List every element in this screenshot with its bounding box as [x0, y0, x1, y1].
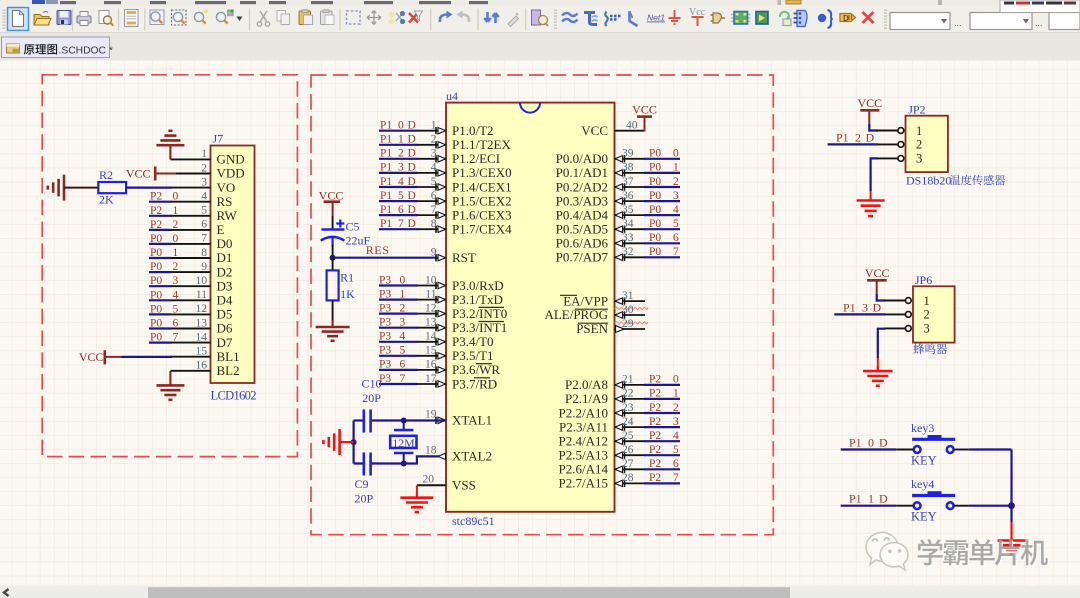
U4 pin 3 (P1.2/ECI) with net label P1_2_D: [379, 148, 500, 167]
J7 pin 1 (GND): [171, 148, 245, 166]
junction node RES: [330, 255, 336, 261]
svg-text:23: 23: [622, 402, 634, 414]
U4 pin 32 (P0.7/AD7) with net label P0_7: [556, 246, 680, 265]
svg-text:VCC: VCC: [857, 96, 882, 110]
svg-text:P3.0/RxD: P3.0/RxD: [452, 278, 504, 293]
power port VCC (JP6): [865, 266, 890, 294]
svg-text:36: 36: [622, 190, 634, 202]
svg-text:...: ...: [954, 18, 962, 28]
wire / net label P0_4 (J7 pin 11): [149, 289, 179, 301]
svg-text:11: 11: [425, 288, 436, 300]
U4 pin 11 (P3.1/TxD) with net label P3_1: [379, 288, 503, 307]
dashed region box: LCD1602 section: [42, 75, 297, 457]
value 20P (C9): [355, 492, 374, 506]
svg-text:P3.5/T1: P3.5/T1: [452, 348, 494, 363]
svg-text:1: 1: [924, 294, 930, 308]
power port VCC (J7 pin 2): [126, 166, 176, 180]
svg-text:D2: D2: [217, 264, 233, 279]
svg-text:u4: u4: [446, 89, 458, 103]
wire / net label P0_1 (J7 pin 8): [149, 247, 179, 259]
svg-text:5: 5: [201, 205, 207, 217]
U4 pin 31 EA/VPP: [560, 290, 645, 308]
svg-text:18: 18: [425, 445, 437, 457]
wire JP2 pin3 to ground: [871, 158, 878, 200]
svg-text:3: 3: [924, 322, 930, 336]
svg-text:1K: 1K: [340, 287, 355, 301]
svg-text:J7: J7: [213, 132, 224, 146]
U4 pin 2 (P1.1/T2EX) with net label P1_1_D: [379, 134, 511, 153]
wire / net label P0_7 (J7 pin 14): [149, 332, 179, 344]
svg-text:38: 38: [622, 162, 634, 174]
svg-text:P12D: P12D: [836, 130, 875, 144]
top-right open dropdown sliver: [1000, 0, 1080, 13]
ground (left of R2, rotated): [48, 175, 64, 201]
junction caps common: [351, 439, 357, 445]
JP6 pin 1: [884, 294, 930, 308]
svg-text:GND: GND: [217, 152, 245, 167]
designator R2: [99, 168, 113, 182]
watermark text 学霸单片机: [918, 539, 1049, 567]
svg-text:P11D: P11D: [849, 492, 888, 506]
label DS18b20 temperature sensor: [906, 174, 1005, 188]
U4 pin 17 (P3.7/RD) with net label P3_7: [379, 373, 497, 392]
J7 pin 6 (E): [171, 219, 225, 237]
svg-text:P3.7/RD: P3.7/RD: [452, 376, 497, 391]
svg-text:R2: R2: [99, 168, 113, 182]
ERC squiggle pin 29: [615, 322, 649, 324]
wire key3 to common: [954, 449, 1012, 451]
svg-text:P3.4/T0: P3.4/T0: [452, 334, 494, 349]
tab label 原理图.SCHDOC *: [24, 44, 113, 56]
svg-text:P1.0/T2: P1.0/T2: [452, 123, 494, 138]
bottom scrollbar: [0, 586, 1080, 598]
svg-text:P0.0/AD0: P0.0/AD0: [556, 151, 608, 166]
svg-text:P13D: P13D: [380, 162, 416, 174]
wire / net label P0_6 (J7 pin 13): [149, 318, 179, 330]
U4 pin 34 (P0.5/AD5) with net label P0_5: [556, 218, 680, 237]
U4 pin 15 (P3.5/T1) with net label P3_5: [379, 345, 494, 364]
svg-text:LCD1602: LCD1602: [211, 389, 257, 403]
value 2K: [99, 193, 114, 207]
J7 pin 13 (D6): [171, 317, 233, 335]
toolbar background: [0, 6, 1080, 33]
svg-text:KEY: KEY: [911, 510, 937, 524]
svg-text:14: 14: [196, 331, 208, 343]
svg-text:8: 8: [201, 247, 207, 259]
U4 pin 5 (P1.4/CEX1) with net label P1_4_D: [379, 176, 512, 195]
push button key3: [911, 421, 955, 468]
resistor R2: [98, 182, 126, 193]
svg-text:P12D: P12D: [380, 148, 416, 160]
svg-text:D1: D1: [217, 250, 233, 265]
tab bar: [0, 33, 1080, 60]
capacitor C5 (electrolytic): [321, 220, 345, 247]
wire ground to R2: [64, 187, 98, 189]
ground (keys): [998, 535, 1026, 555]
svg-text:25: 25: [622, 430, 634, 442]
net label P1_2_D / wire to JP2 pin 2: [828, 130, 878, 144]
value 20P (C10): [362, 391, 381, 405]
U4 pin 22 (P2.1/A9) with net label P2_1: [565, 388, 680, 407]
svg-text:20P: 20P: [362, 391, 381, 405]
svg-text:35: 35: [622, 204, 634, 216]
junction keys common: [1008, 502, 1015, 509]
svg-text:E: E: [217, 222, 225, 237]
wire / net label P2_0 (J7 pin 4): [149, 191, 179, 203]
U4 pin 13 (P3.3/INT1) with net label P3_3: [379, 317, 507, 336]
net label P1_0_D / wire to key3: [841, 436, 914, 450]
JP2 pin 3: [876, 152, 922, 166]
U4 pin 26 (P2.5/A13) with net label P2_5: [559, 444, 680, 463]
svg-text:1: 1: [201, 148, 207, 160]
svg-text:12: 12: [425, 302, 437, 314]
svg-text:15: 15: [425, 345, 437, 357]
svg-text:VCC: VCC: [319, 188, 344, 202]
svg-text:P1.4/CEX1: P1.4/CEX1: [452, 179, 512, 194]
svg-text:P0.3/AD3: P0.3/AD3: [556, 193, 608, 208]
JP6 pin 2: [884, 308, 930, 322]
designator u4: [446, 89, 458, 103]
label LCD1602: [211, 389, 257, 403]
U4 pin 20 VSS: [417, 474, 476, 493]
svg-text:10: 10: [196, 275, 208, 287]
toolbar icons: [4, 0, 1080, 31]
wire XTAL2 rail: [354, 456, 439, 463]
svg-text:5: 5: [431, 176, 437, 188]
J7 pin 7 (D0): [171, 233, 233, 251]
designator JP2: [908, 103, 925, 117]
svg-text:R1: R1: [340, 270, 354, 284]
svg-text:P1.1/T2EX: P1.1/T2EX: [452, 137, 511, 152]
U4 pin 1 (P1.0/T2) with net label P1_0_D: [379, 120, 494, 139]
svg-text:VO: VO: [217, 180, 236, 195]
wire VCC to C5: [332, 216, 334, 230]
value 22uF: [346, 233, 371, 247]
power port VCC (reset branch): [319, 188, 344, 216]
resistor R1: [327, 270, 339, 300]
net label P1_1_D / wire to key4: [841, 492, 914, 506]
svg-text:RST: RST: [452, 250, 476, 265]
wire key4 to common: [954, 505, 1012, 507]
svg-text:P1.3/CEX0: P1.3/CEX0: [452, 165, 512, 180]
designator C10: [362, 377, 382, 391]
wire keys common vertical: [1010, 450, 1012, 523]
J7 pin 15 (BL1): [171, 346, 240, 364]
svg-text:3: 3: [916, 152, 922, 166]
power port VCC (J7 pin 15): [79, 350, 122, 365]
svg-text:37: 37: [622, 176, 634, 188]
svg-text:KEY: KEY: [911, 454, 937, 468]
wire JP6 pin3 to ground: [878, 329, 886, 371]
U4 pin 7 (P1.6/CEX3) with net label P1_6_D: [379, 204, 512, 223]
svg-text:VCC: VCC: [79, 350, 104, 364]
J7 pin 11 (D4): [171, 289, 233, 307]
svg-text:.SCHDOC *: .SCHDOC *: [59, 45, 113, 56]
svg-text:32: 32: [622, 246, 634, 258]
svg-text:VDD: VDD: [217, 166, 245, 181]
svg-text:P0.1/AD1: P0.1/AD1: [556, 165, 608, 180]
U4 pin 40 VCC with power port: [581, 102, 657, 138]
U4 pin 16 (P3.6/WR) with net label P3_6: [379, 359, 500, 378]
svg-text:VSS: VSS: [452, 478, 476, 493]
designator J7: [213, 132, 224, 146]
svg-text:2K: 2K: [99, 193, 114, 207]
svg-text:22uF: 22uF: [346, 233, 371, 247]
wire VCC to J7 pin15: [122, 356, 173, 358]
wire / net label P0_0 (J7 pin 7): [149, 233, 179, 245]
watermark wechat logo: [866, 533, 908, 571]
svg-text:P2.2/A10: P2.2/A10: [559, 405, 608, 420]
svg-text:XTAL1: XTAL1: [452, 413, 492, 428]
push button key4: [911, 477, 955, 524]
U4 pin 9 RST with net RES: [333, 243, 476, 265]
svg-text:P3.3/INT1: P3.3/INT1: [452, 320, 507, 335]
U4 pin 10 (P3.0/RxD) with net label P3_0: [379, 274, 504, 293]
wire junction to R1: [332, 258, 334, 271]
svg-text:P0.4/AD4: P0.4/AD4: [556, 207, 609, 222]
svg-text:P13D: P13D: [843, 300, 882, 314]
svg-text:1: 1: [431, 120, 437, 132]
JP2 pin 2: [876, 138, 922, 152]
svg-text:DS18b20: DS18b20: [906, 174, 951, 188]
svg-text:XTAL2: XTAL2: [452, 449, 492, 464]
svg-text:26: 26: [622, 444, 634, 456]
svg-text:3: 3: [201, 176, 207, 188]
JP2 pin 1: [876, 124, 922, 138]
svg-text:7: 7: [201, 233, 207, 245]
wire C5 to junction: [332, 245, 334, 258]
J7 pin 2 (VDD): [171, 162, 245, 180]
J7 pin 10 (D3): [171, 275, 233, 293]
svg-text:P3.1/TxD: P3.1/TxD: [452, 292, 503, 307]
designator C5: [346, 220, 360, 234]
connector J7 body: [211, 146, 255, 384]
U4 pin 33 (P0.6/AD6) with net label P0_6: [556, 232, 680, 251]
svg-text:JP6: JP6: [915, 273, 932, 287]
crystal Y1 12M: [390, 421, 416, 464]
svg-text:P1.2/ECI: P1.2/ECI: [452, 151, 500, 166]
svg-text:...: ...: [1035, 18, 1043, 28]
svg-text:12M: 12M: [392, 436, 415, 450]
ground (JP6): [863, 366, 893, 386]
svg-text:11: 11: [196, 289, 207, 301]
ground (reset branch): [316, 320, 350, 341]
connector JP6 body: [913, 286, 955, 342]
svg-text:BL2: BL2: [217, 363, 240, 378]
power port VCC (JP2): [857, 96, 882, 124]
wire to crystal ground: [341, 441, 354, 443]
svg-text:P11D: P11D: [380, 134, 416, 146]
svg-text:27: 27: [622, 458, 634, 470]
wire VCC to JP6 pin1: [877, 294, 886, 301]
value 1K: [340, 287, 355, 301]
svg-text:D5: D5: [217, 307, 233, 322]
junction XTAL1/crystal: [401, 418, 407, 424]
svg-text:P2.5/A13: P2.5/A13: [559, 448, 608, 463]
svg-text:29: 29: [622, 318, 634, 330]
designator JP6: [915, 273, 932, 287]
svg-text:6: 6: [201, 219, 207, 231]
svg-text:P15D: P15D: [380, 190, 416, 202]
svg-text:7: 7: [431, 204, 437, 216]
svg-text:30: 30: [622, 304, 634, 316]
svg-text:VCC: VCC: [581, 123, 608, 138]
capacitor C9: [364, 453, 371, 476]
J7 pin 9 (D2): [171, 261, 233, 279]
svg-text:RW: RW: [217, 208, 238, 223]
svg-text:key3: key3: [911, 421, 934, 435]
J7 pin 12 (D5): [171, 303, 233, 321]
svg-text:P0.7/AD7: P0.7/AD7: [556, 250, 609, 265]
svg-text:6: 6: [431, 190, 437, 202]
U4 pin 19 XTAL1: [425, 409, 492, 428]
J7 pin 3 (VO): [171, 176, 236, 194]
U4 pin 4 (P1.3/CEX0) with net label P1_3_D: [379, 162, 512, 181]
U4 pin 25 (P2.4/A12) with net label P2_4: [559, 430, 680, 449]
svg-text:VCC: VCC: [632, 102, 657, 116]
svg-text:D: D: [843, 14, 849, 23]
wire J7 pin16 to ground: [169, 371, 171, 385]
svg-text:P16D: P16D: [380, 204, 416, 216]
svg-text:14: 14: [425, 331, 437, 343]
U4 pin 39 (P0.0/AD0) with net label P0_0: [556, 148, 680, 167]
svg-text:4: 4: [431, 162, 437, 174]
svg-text:24: 24: [622, 416, 634, 428]
svg-text:3: 3: [431, 148, 437, 160]
J7 pin 8 (D1): [171, 247, 233, 265]
svg-text:P2.3/A11: P2.3/A11: [559, 419, 608, 434]
svg-text:P0.5/AD5: P0.5/AD5: [556, 222, 608, 237]
svg-text:D4: D4: [217, 293, 233, 308]
label buzzer: [913, 344, 947, 355]
svg-text:20: 20: [423, 474, 435, 486]
svg-text:P3.2/INT0: P3.2/INT0: [452, 306, 507, 321]
svg-text:P10D: P10D: [849, 436, 888, 450]
svg-text:39: 39: [622, 148, 634, 160]
svg-text:P1.5/CEX2: P1.5/CEX2: [452, 193, 512, 208]
designator R1: [340, 270, 354, 284]
wire XTAL1 rail: [354, 419, 446, 421]
svg-text:28: 28: [622, 472, 634, 484]
svg-text:D0: D0: [217, 236, 233, 251]
svg-text:P3.6/WR: P3.6/WR: [452, 362, 500, 377]
ground (crystal, rotated): [323, 429, 339, 455]
svg-text:key4: key4: [911, 477, 934, 491]
svg-text:10: 10: [425, 274, 437, 286]
svg-text:2: 2: [924, 308, 930, 322]
J7 pin 16 (BL2): [171, 360, 240, 378]
svg-text:P17D: P17D: [380, 218, 416, 230]
svg-text:C10: C10: [362, 377, 382, 391]
svg-text:P1.7/CEX4: P1.7/CEX4: [452, 222, 512, 237]
svg-text:Net1: Net1: [647, 13, 665, 23]
ground (VSS): [400, 492, 433, 512]
svg-text:P0.2/AD2: P0.2/AD2: [556, 179, 608, 194]
U4 pin 37 (P0.2/AD2) with net label P0_2: [556, 176, 680, 195]
svg-text:9: 9: [431, 247, 437, 259]
svg-text:19: 19: [425, 409, 437, 421]
U4 pin 35 (P0.4/AD4) with net label P0_4: [556, 204, 680, 223]
svg-text:13: 13: [425, 317, 437, 329]
U4 pin 24 (P2.3/A11) with net label P2_3: [559, 416, 680, 435]
svg-text:VCC: VCC: [865, 266, 890, 280]
U4 pin 30 ALE/PROG: [544, 304, 645, 322]
svg-text:22: 22: [622, 388, 634, 400]
wire / net label P2_2 (J7 pin 6): [149, 219, 179, 231]
junction crystal/XTAL2: [401, 461, 407, 467]
svg-text:P0.6/AD6: P0.6/AD6: [556, 236, 609, 251]
svg-text:D3: D3: [217, 278, 233, 293]
svg-text:40: 40: [626, 119, 638, 131]
ground (JP2): [857, 196, 885, 216]
svg-text:31: 31: [622, 290, 634, 302]
svg-text:D6: D6: [217, 321, 233, 336]
designator C9: [355, 477, 369, 491]
svg-text:RS: RS: [217, 194, 233, 209]
JP6 pin 3: [884, 322, 930, 336]
svg-text:2: 2: [201, 162, 207, 174]
U4 pin 8 (P1.7/CEX4) with net label P1_7_D: [379, 218, 512, 237]
U4 pin 6 (P1.5/CEX2) with net label P1_5_D: [379, 190, 512, 209]
wire to keys ground: [1010, 522, 1012, 541]
svg-text:33: 33: [622, 232, 634, 244]
svg-text:15: 15: [196, 346, 208, 358]
svg-text:P14D: P14D: [380, 176, 416, 188]
U4 pin 36 (P0.3/AD3) with net label P0_3: [556, 190, 680, 209]
svg-text:1: 1: [916, 124, 922, 138]
label stc89c51: [452, 514, 495, 528]
svg-text:P10D: P10D: [380, 120, 416, 132]
U4 pin 28 (P2.7/A15) with net label P2_7: [559, 472, 680, 491]
svg-text:12: 12: [196, 303, 208, 315]
wire / net label P0_2 (J7 pin 9): [149, 261, 179, 273]
svg-text:P1.6/CEX3: P1.6/CEX3: [452, 207, 512, 222]
svg-text:20P: 20P: [355, 492, 374, 506]
svg-text:P2.1/A9: P2.1/A9: [565, 391, 608, 406]
value 12M: [392, 436, 415, 450]
svg-text:16: 16: [425, 359, 437, 371]
wire / net label P0_5 (J7 pin 12): [149, 303, 179, 315]
menu bar sliver (cut off at top): [0, 0, 1080, 6]
svg-text:9: 9: [201, 261, 207, 273]
svg-text:stc89c51: stc89c51: [452, 514, 495, 528]
U4 pin 14 (P3.4/T0) with net label P3_4: [379, 331, 494, 350]
U4 pin 27 (P2.6/A14) with net label P2_6: [559, 458, 680, 477]
net label P1_3_D / wire to JP6 pin 2: [834, 300, 885, 314]
svg-text:C9: C9: [355, 477, 369, 491]
capacitor C10: [364, 410, 371, 433]
U4 pin 21 (P2.0/A8) with net label P2_0: [565, 374, 680, 393]
U4 pin 38 (P0.1/AD1) with net label P0_1: [556, 162, 680, 181]
wire R1 to ground: [332, 300, 334, 327]
ground (J7 pin 16): [156, 371, 184, 400]
J7 pin 14 (D7): [171, 331, 233, 349]
svg-text:16: 16: [196, 360, 208, 372]
U4 pin 23 (P2.2/A10) with net label P2_2: [559, 402, 680, 421]
wire VSS to ground: [416, 485, 418, 498]
U4 pin 12 (P3.2/INT0) with net label P3_2: [379, 302, 507, 321]
wire crystal caps common: [353, 421, 355, 464]
svg-text:P2.0/A8: P2.0/A8: [565, 377, 608, 392]
wire J7 pin1 to ground: [169, 146, 171, 159]
svg-text:BL1: BL1: [217, 349, 240, 364]
svg-text:17: 17: [425, 373, 437, 385]
J7 pin 4 (RS): [171, 191, 233, 209]
connector JP2 body: [906, 116, 948, 172]
U4 pin 29 PSEN: [576, 318, 645, 336]
svg-text:JP2: JP2: [908, 103, 925, 117]
svg-text:21: 21: [622, 374, 634, 386]
